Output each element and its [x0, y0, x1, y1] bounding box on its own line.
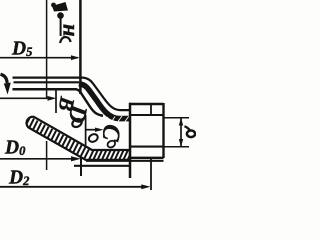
socket top line — [129, 103, 164, 105]
dim line d — [180, 118, 182, 147]
extension line V1 lower — [46, 141, 48, 170]
tick d top — [164, 117, 190, 119]
channel inner line C — [13, 89, 104, 116]
stub line y164.5 — [74, 165, 130, 167]
chamber bottom outer edge — [86, 160, 164, 162]
subscript o under C — [106, 139, 116, 148]
label d rotated — [187, 131, 195, 138]
arrowhead D2 — [141, 184, 150, 189]
lower wall hatched piece — [27, 117, 130, 160]
subscript o after B — [71, 117, 83, 128]
extension line V1 upper — [46, 0, 48, 99]
arrowhead D5 — [71, 55, 80, 60]
flange line x130 — [129, 103, 132, 178]
arrowhead y98 — [48, 96, 57, 101]
svg-text:н: н — [54, 24, 79, 37]
socket bore bottom — [130, 146, 164, 148]
channel wall line B (thin part) — [14, 81, 80, 83]
arrowhead d down — [179, 139, 183, 147]
dimension line D0 — [0, 158, 72, 160]
velocity arrow c0 — [86, 129, 97, 131]
extension line x57.5 — [55, 90, 57, 113]
extension x151 upper — [150, 104, 152, 115]
socket bore top — [130, 114, 164, 116]
socket bottom line — [129, 157, 164, 159]
leader line — [60, 18, 62, 36]
extension line V2 upper — [79, 0, 82, 94]
extension line V2 lower — [80, 157, 82, 176]
intake flow arrow — [1, 74, 8, 83]
extension line x85.5 — [85, 115, 87, 157]
leader dot — [57, 12, 64, 19]
white hatch specks on band — [97, 116, 129, 123]
socket right edge — [162, 103, 164, 158]
dimension line D5 — [0, 57, 78, 59]
view arrow A — [52, 2, 68, 12]
tick d bottom — [164, 146, 190, 148]
channel outer line A — [13, 78, 131, 111]
dimension line D2 — [0, 186, 143, 188]
subscript o after D — [88, 133, 100, 144]
arrowhead d up — [179, 118, 183, 126]
arrowhead D0 — [71, 156, 81, 161]
wall section thick band — [79, 84, 130, 119]
dimension line y98 — [0, 97, 49, 99]
label l_n rotated — [60, 37, 71, 43]
extension x151 lower — [150, 158, 152, 190]
